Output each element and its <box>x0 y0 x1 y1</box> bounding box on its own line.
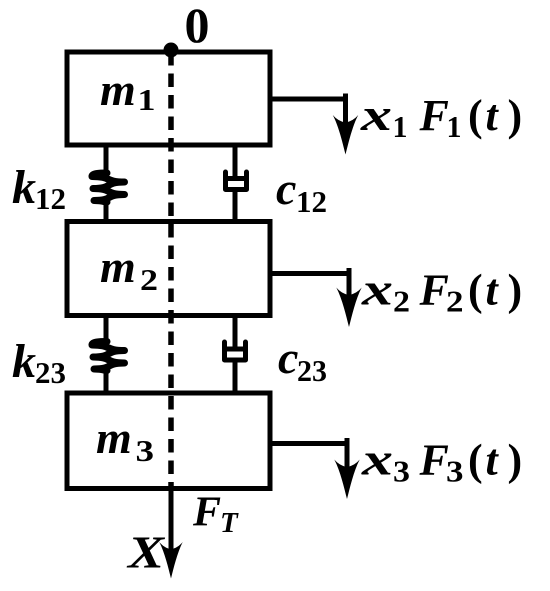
svg-text:x: x <box>361 264 393 315</box>
svg-text:m: m <box>100 64 136 115</box>
svg-text:12: 12 <box>296 184 327 219</box>
svg-text:2: 2 <box>393 284 410 319</box>
svg-text:(: ( <box>468 266 483 315</box>
svg-text:k: k <box>12 161 36 214</box>
mass m1 <box>67 52 270 145</box>
svg-text:X: X <box>126 527 166 578</box>
svg-text:): ) <box>508 266 523 315</box>
svg-text:x: x <box>360 89 392 140</box>
svg-text:F: F <box>419 91 449 140</box>
spring k12 <box>92 145 125 222</box>
svg-text:t: t <box>486 436 500 485</box>
arrow x2 (force F2) <box>270 268 362 327</box>
svg-text:23: 23 <box>35 355 66 390</box>
svg-text:3: 3 <box>393 454 410 489</box>
svg-text:c: c <box>278 332 298 383</box>
svg-text:F: F <box>419 436 449 485</box>
svg-text:k: k <box>12 335 36 388</box>
svg-text:2: 2 <box>446 284 464 319</box>
svg-text:12: 12 <box>35 181 66 216</box>
node 0 reference dot <box>164 43 179 58</box>
label x2 F2(t) <box>361 264 523 319</box>
svg-text:t: t <box>486 266 500 315</box>
svg-text:F: F <box>419 266 449 315</box>
svg-text:1: 1 <box>393 109 408 144</box>
svg-text:3: 3 <box>446 454 464 489</box>
svg-text:t: t <box>486 91 500 140</box>
svg-text:x: x <box>361 434 393 485</box>
svg-text:F: F <box>192 490 221 536</box>
svg-text:0: 0 <box>185 0 210 53</box>
centerline (dashed vertical axis) <box>168 52 174 488</box>
svg-text:23: 23 <box>297 353 327 388</box>
svg-text:2: 2 <box>140 262 158 297</box>
label x1 F1(t) <box>360 89 523 144</box>
svg-text:): ) <box>508 91 523 140</box>
svg-text:(: ( <box>468 91 483 140</box>
svg-text:c: c <box>276 163 296 214</box>
force FT arrow (bottom axis X) <box>159 489 182 579</box>
mass m2 <box>67 222 270 316</box>
svg-text:m: m <box>100 241 136 292</box>
damper c23 <box>225 316 246 394</box>
label x3 F3(t) <box>361 434 523 489</box>
svg-text:): ) <box>508 436 523 485</box>
mass m3 <box>67 393 270 489</box>
svg-text:m: m <box>96 412 132 463</box>
svg-text:(: ( <box>468 436 483 485</box>
svg-text:T: T <box>220 507 239 539</box>
arrow x1 (force F1) <box>270 94 358 155</box>
damper c12 <box>226 145 247 222</box>
svg-text:3: 3 <box>136 433 155 468</box>
svg-text:1: 1 <box>447 109 462 144</box>
svg-text:1: 1 <box>138 82 156 117</box>
spring k23 <box>92 316 125 394</box>
arrow x3 (force F3) <box>270 438 360 499</box>
